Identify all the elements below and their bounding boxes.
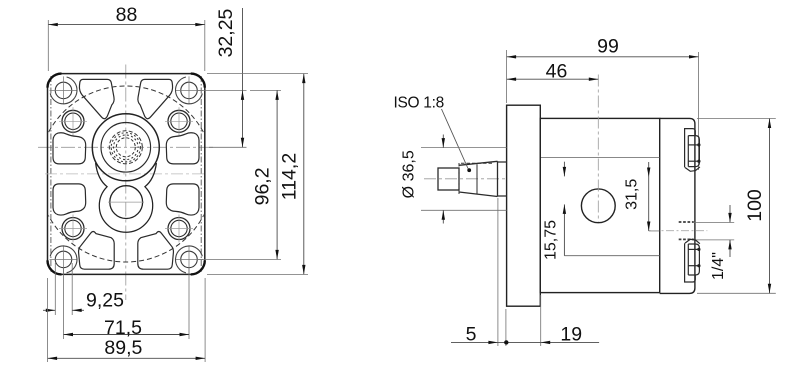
svg-text:46: 46 bbox=[546, 60, 568, 82]
dim 9,25 arrows bbox=[46, 309, 56, 312]
central boss outer circle bbox=[92, 114, 159, 181]
pocket left-lower bbox=[53, 184, 86, 215]
dim 5/19 ext lines bbox=[497, 198, 499, 346]
svg-text:5: 5 bbox=[466, 324, 477, 346]
centerline vertical front view bbox=[125, 65, 127, 301]
pump body bbox=[540, 118, 659, 292]
dim 1/4 line segments bbox=[729, 205, 731, 222]
dim 9,25 ext lines bbox=[54, 263, 56, 315]
aux line upper bbox=[541, 156, 660, 158]
dim 114,2 line bbox=[303, 74, 305, 275]
svg-text:88: 88 bbox=[116, 4, 138, 26]
lower port circle bbox=[110, 186, 143, 219]
bottom port fitting (mirrored copy) bbox=[685, 239, 701, 282]
svg-text:31,5: 31,5 bbox=[623, 179, 640, 210]
svg-text:9,25: 9,25 bbox=[86, 290, 124, 312]
svg-text:15,75: 15,75 bbox=[542, 220, 559, 260]
dim 1/4 arrows bbox=[728, 213, 731, 223]
svg-text:99: 99 bbox=[597, 36, 619, 58]
rear cover bbox=[660, 118, 695, 293]
aux line lower bbox=[564, 255, 659, 257]
spline dashed circle inner bbox=[116, 138, 135, 157]
shaft axis centerline bbox=[424, 178, 508, 180]
dim 46 line bbox=[507, 78, 599, 80]
lower boss circle bbox=[96, 163, 157, 232]
dim 96,2 ext line low bbox=[198, 258, 282, 260]
svg-text:Ø 36,5: Ø 36,5 bbox=[401, 150, 418, 198]
svg-text:100: 100 bbox=[744, 189, 766, 222]
dim 15,75 arrows bbox=[563, 167, 566, 177]
inner edge dash-dot line right bbox=[200, 76, 202, 272]
dim 89,5 arrows bbox=[48, 357, 58, 360]
dim 88 arrows bbox=[48, 23, 58, 26]
drain port axis dash-dot bbox=[651, 230, 707, 232]
dim 96,2 arrows bbox=[275, 90, 278, 100]
svg-text:19: 19 bbox=[560, 324, 582, 346]
spline dashed circle middle bbox=[111, 133, 140, 162]
corner hole BL bbox=[55, 251, 72, 268]
dim 15,75 line segments bbox=[563, 162, 565, 177]
svg-text:71,5: 71,5 bbox=[104, 317, 142, 339]
inner edge dash-dot line left bbox=[50, 76, 52, 272]
svg-text:32,25: 32,25 bbox=[215, 8, 237, 57]
dim 46 arrows bbox=[507, 78, 516, 81]
dim 100 arrows bbox=[768, 119, 771, 129]
svg-text:89,5: 89,5 bbox=[104, 337, 142, 359]
dim Ø36,5 line segments bbox=[442, 135, 444, 148]
dim 99 line bbox=[507, 56, 699, 58]
central bore circle bbox=[101, 123, 151, 173]
dim 88 ext lines bbox=[47, 20, 49, 71]
dim 1/4 ext lines bbox=[694, 221, 734, 223]
top port fitting bbox=[685, 129, 701, 172]
mounting hole lower-right bbox=[168, 218, 190, 240]
shaft end cylinder bbox=[438, 168, 459, 190]
shaft neck to flange bbox=[498, 162, 507, 196]
dim 9,25 line bbox=[43, 309, 55, 311]
dim 96,2 line bbox=[276, 90, 278, 259]
dim 31,5 arrows bbox=[647, 168, 650, 178]
thread dashes lower bbox=[679, 238, 694, 240]
dim 32,25 line bbox=[242, 8, 244, 147]
dim 99 ext lines bbox=[506, 50, 508, 103]
corner hole BR bbox=[181, 251, 198, 268]
svg-text:114,2: 114,2 bbox=[279, 153, 301, 200]
port vertical centerline bbox=[597, 75, 599, 223]
dim 71,5 ext lines bbox=[63, 268, 65, 339]
dim 71,5 line bbox=[64, 334, 190, 336]
thread dashes upper bbox=[679, 222, 694, 239]
svg-text:96,2: 96,2 bbox=[251, 167, 273, 205]
mid-height centerline bbox=[45, 173, 207, 175]
pocket right-lower bbox=[166, 184, 199, 215]
mounting hole crosshairs bbox=[59, 107, 193, 242]
dim 100 ext lines bbox=[697, 118, 776, 120]
flange plate bbox=[507, 105, 541, 306]
cone step tick bbox=[476, 164, 478, 193]
dim 89,5 line bbox=[48, 357, 206, 359]
aux line 31,5 bottom bbox=[649, 230, 660, 232]
pocket top-right bbox=[138, 79, 173, 118]
pocket bottom-right bbox=[138, 232, 174, 270]
lower circle crosshair bbox=[108, 201, 144, 203]
pocket right-upper bbox=[166, 133, 199, 164]
dim 100 line bbox=[769, 119, 771, 294]
pocket top-left bbox=[79, 79, 114, 118]
dim 89,5 ext lines bbox=[47, 278, 49, 362]
pocket left-upper bbox=[53, 133, 86, 164]
mounting hole upper-right bbox=[168, 110, 190, 132]
dim 5 arrow bbox=[488, 341, 498, 344]
svg-text:1/4": 1/4" bbox=[710, 252, 727, 280]
dim Ø36,5 ext lines bbox=[421, 147, 507, 149]
dim 114,2 ext lines bbox=[207, 73, 308, 75]
flange outline bbox=[48, 74, 205, 275]
corner hole TL bbox=[55, 82, 72, 99]
dim 32,25 ext lines bbox=[198, 89, 247, 91]
corner hole boss arcs bbox=[50, 77, 202, 273]
corner hole crosshairs bbox=[50, 76, 204, 273]
dim Ø36,5 arrows bbox=[442, 138, 445, 148]
mounting hole lower-left bbox=[62, 218, 84, 240]
dim 99 arrows bbox=[507, 55, 516, 58]
cone small-end dashed line bbox=[458, 163, 460, 195]
svg-text:ISO 1:8: ISO 1:8 bbox=[394, 95, 444, 112]
leader ISO 1:8 bbox=[442, 109, 469, 169]
body port circle bbox=[581, 189, 615, 223]
dim 31,5 line bbox=[648, 162, 650, 231]
centerline horizontal shaft axis front view bbox=[38, 146, 214, 148]
cone thread dashed line bbox=[461, 162, 494, 164]
corner arcs thick bbox=[48, 74, 62, 88]
pocket bottom-left bbox=[79, 232, 115, 270]
dim 71,5 arrows bbox=[64, 333, 74, 336]
dashed pilot circle Ø100 bbox=[38, 86, 214, 262]
corner hole TR bbox=[181, 82, 198, 99]
spline dashed circle outer bbox=[109, 131, 142, 164]
dim 88 line bbox=[48, 24, 205, 26]
dim 32,25 arrows bbox=[241, 90, 244, 100]
dim 5 and 19 line bbox=[451, 341, 599, 343]
dim 19 arrow bbox=[541, 341, 551, 344]
dim 5/19 dot bbox=[504, 340, 508, 344]
dim 114,2 arrows bbox=[302, 74, 305, 84]
mounting hole upper-left (double circle) bbox=[62, 110, 84, 132]
shaft cone bbox=[459, 161, 498, 196]
